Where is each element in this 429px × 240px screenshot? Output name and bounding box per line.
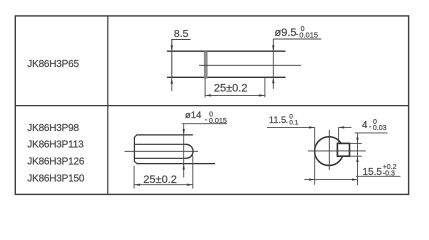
top-left chamfer [134, 135, 137, 137]
gray junction bar [204, 51, 208, 78]
bottom-left chamfer [134, 161, 137, 163]
rounded tip arc [186, 144, 193, 158]
dim 8.5 lower line [171, 78, 173, 91]
svg-text:0.03: 0.03 [373, 125, 387, 132]
shaft bottom edge [167, 76, 286, 78]
svg-text:0.015: 0.015 [299, 30, 318, 39]
table row divider [15, 105, 408, 107]
inner bottom line [134, 157, 186, 159]
shaft top edge [137, 134, 193, 136]
dim 15.5 line [304, 179, 357, 181]
dim 4 shelf [355, 132, 388, 134]
svg-text:ø9.5: ø9.5 [275, 27, 297, 39]
dim 25+-0.2 right extension [192, 155, 194, 189]
shaft left edge [133, 137, 135, 162]
shaft centerline [125, 150, 199, 152]
dim dia 14 shelf [182, 123, 227, 125]
dim 11.5 line right segment [339, 126, 352, 128]
dim 25+-0.2 left extension [204, 78, 206, 98]
dim 25+-0.2 right arrow [187, 184, 193, 186]
vertical centerline [328, 130, 330, 170]
dim 8.5 upper arrow [171, 45, 173, 51]
dim 11.5 right arrow [339, 126, 345, 128]
dim dia 9.5 vertical line [272, 39, 274, 89]
svg-text:0.1: 0.1 [289, 119, 298, 126]
svg-text:JK86H3P150: JK86H3P150 [27, 173, 85, 184]
dim dia 14 vertical line [183, 124, 185, 178]
dim 11.5 left extension [314, 127, 316, 184]
dim 15.5 left arrow [309, 178, 315, 180]
svg-text:4: 4 [362, 120, 368, 131]
dim 25+-0.2 right arrow [259, 94, 265, 96]
dim 25+-0.2 line [134, 184, 193, 186]
svg-text:JK86H3P65: JK86H3P65 [27, 59, 79, 70]
circle (end view) [315, 137, 344, 166]
dim 4 vertical line [357, 133, 359, 185]
centerline through tab [337, 150, 350, 152]
svg-text:JK86H3P98: JK86H3P98 [27, 123, 79, 134]
svg-text:11.5: 11.5 [269, 115, 286, 125]
dim dia 14 upper arrow [183, 129, 185, 135]
dim 15.5 right arrow [352, 178, 358, 180]
svg-text:8.5: 8.5 [174, 28, 189, 40]
svg-text:JK86H3P113: JK86H3P113 [27, 140, 84, 151]
svg-text:-: - [286, 119, 288, 126]
dim 8.5 shelf [171, 39, 190, 41]
dim 25+-0.2 line [205, 94, 265, 96]
dim 11.5 line left segment [267, 126, 315, 128]
tab bottom extension [350, 155, 362, 157]
svg-text:JK86H3P126: JK86H3P126 [27, 157, 85, 168]
table column divider [107, 16, 109, 195]
inner top line [134, 143, 186, 145]
dim dia 9.5 shelf [273, 38, 321, 40]
dim 25+-0.2 left arrow [206, 94, 212, 96]
dim 25+-0.2 left extension [133, 166, 135, 189]
dim 11.5 left arrow [309, 126, 315, 128]
dim 15.5 text underline [356, 175, 401, 177]
shaft left edge / dim 8.5 line [171, 40, 173, 78]
horizontal centerline [308, 150, 366, 152]
svg-text:25±0.2: 25±0.2 [143, 174, 177, 186]
dim 11.5 right extension [338, 127, 340, 143]
dim 4 upper arrow [356, 138, 358, 144]
shaft centerline [199, 64, 301, 66]
dim dia 9.5 upper arrow [272, 45, 274, 51]
dim 8.5 lower arrow [171, 78, 173, 84]
table outer border [15, 16, 408, 195]
svg-text:ø14: ø14 [185, 110, 201, 121]
dim 25+-0.2 right extension [264, 78, 266, 98]
svg-text:25±0.2: 25±0.2 [214, 82, 248, 94]
tab top extension [350, 142, 362, 144]
shaft bottom edge [137, 163, 215, 165]
dim dia 9.5 lower arrow [272, 78, 274, 84]
dim dia 14 lower arrow [183, 164, 185, 170]
shaft top edge [167, 50, 286, 52]
dim 25+-0.2 left arrow [135, 184, 141, 186]
dim 4 lower arrow [356, 156, 358, 162]
tab rectangle [337, 143, 349, 156]
